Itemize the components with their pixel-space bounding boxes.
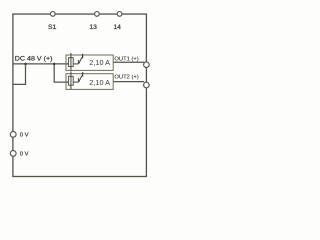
svg-text:2,10 A: 2,10 A <box>89 58 110 67</box>
svg-text:2,10 A: 2,10 A <box>89 78 110 87</box>
svg-text:0 V: 0 V <box>20 151 29 157</box>
svg-text:DC 48 V (+): DC 48 V (+) <box>15 56 53 63</box>
svg-text:0 V: 0 V <box>20 132 29 138</box>
svg-text:13: 13 <box>89 24 97 31</box>
svg-text:OUT2 (+): OUT2 (+) <box>114 75 138 81</box>
svg-text:S1: S1 <box>48 24 57 31</box>
svg-text:OUT1 (+): OUT1 (+) <box>114 57 138 63</box>
svg-text:14: 14 <box>113 24 121 31</box>
